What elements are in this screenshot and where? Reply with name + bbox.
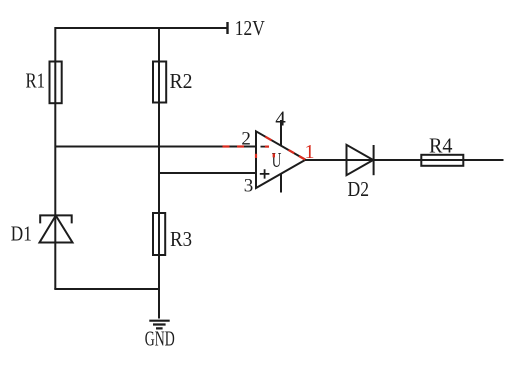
diode D2 triangle [347,145,374,175]
ground symbol bars [149,321,169,329]
wire middle vertical branch through R2 and R3 [158,27,160,289]
resistor R2 [153,62,166,103]
red dashed highlight on pin 2 wire [223,145,245,147]
resistor R4 [421,155,463,166]
op-amp U triangle [256,131,306,188]
negative supply pin line [280,174,282,193]
svg-text:GND: GND [145,327,175,351]
pin 4 supply line [280,120,282,146]
zener diode D1 cathode bar [40,215,71,223]
svg-text:R4: R4 [429,134,453,158]
resistor R3 [153,213,165,255]
svg-text:4: 4 [275,106,286,130]
red dash over minus sign [265,146,269,148]
svg-text:U: U [272,148,282,172]
wire output through D2 and R4 [306,159,504,161]
wire bottom horizontal [54,288,159,290]
svg-text:12V: 12V [235,16,265,40]
wire ground stub [158,288,160,319]
svg-text:R3: R3 [170,227,192,251]
diode D2 cathode bar [373,145,375,175]
wire non-inverting input to pin 3 [159,172,256,174]
zener diode D1 triangle [40,216,73,243]
svg-text:1: 1 [305,141,315,163]
svg-text:3: 3 [244,176,254,197]
svg-text:D1: D1 [11,222,32,246]
op-amp plus sign [260,169,270,178]
red dash inside triangle [273,153,275,157]
svg-text:R2: R2 [170,69,193,93]
svg-text:D2: D2 [348,177,370,201]
red dashes along op-amp top edge [265,137,305,160]
resistor R1 [50,62,62,104]
op-amp minus sign [261,146,269,148]
svg-text:R1: R1 [26,69,46,93]
red dash on op-amp left edge [255,154,257,158]
wire top rail from R1 branch to 12V terminal [55,27,227,29]
power terminal 12V bar [226,22,228,34]
wire inverting input to pin 2 [55,146,256,148]
wire left vertical branch through R1 and D1 [54,27,56,289]
